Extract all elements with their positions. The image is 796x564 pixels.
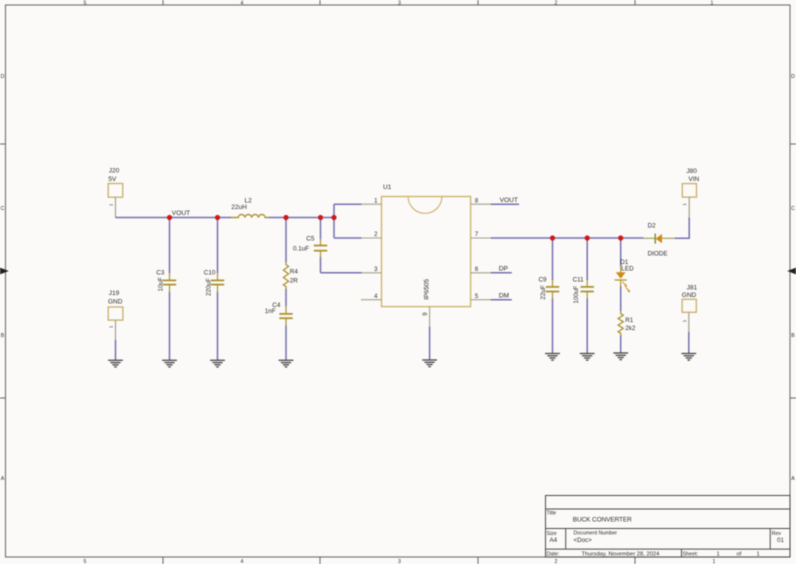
U1 pin 9 <box>423 307 430 327</box>
ground (U1 pin9) <box>422 360 437 367</box>
op-amp U1 IP6505 body <box>382 184 471 307</box>
svg-text:DP: DP <box>499 266 509 273</box>
svg-text:IP6505: IP6505 <box>424 279 431 300</box>
svg-text:J19: J19 <box>109 290 120 297</box>
ground (J19) <box>108 360 123 367</box>
net VOUT at pin 8 <box>491 197 519 204</box>
capacitor C11 <box>573 238 594 354</box>
svg-text:1: 1 <box>108 325 114 328</box>
connector J20 <box>108 168 123 218</box>
svg-text:2R: 2R <box>290 278 299 285</box>
net DP at pin 6 <box>491 266 512 273</box>
svg-text:D: D <box>1 74 5 80</box>
svg-text:2k2: 2k2 <box>625 325 636 332</box>
svg-text:LED: LED <box>621 266 634 273</box>
svg-text:22uH: 22uH <box>231 204 247 211</box>
svg-text:1: 1 <box>682 203 688 206</box>
wire U1 pin1/2 vertical <box>333 204 335 238</box>
svg-text:A4: A4 <box>550 537 558 544</box>
svg-text:2: 2 <box>555 1 558 7</box>
svg-text:5V: 5V <box>108 176 117 183</box>
wire J19 to ground <box>115 340 117 360</box>
junction at R4 <box>283 215 288 220</box>
svg-text:C: C <box>791 206 795 212</box>
capacitor C4 <box>265 302 293 360</box>
svg-text:J20: J20 <box>109 168 120 175</box>
svg-text:3: 3 <box>398 559 401 564</box>
svg-text:10uF: 10uF <box>158 277 165 292</box>
U1 pin 4 <box>361 294 382 300</box>
svg-text:GND: GND <box>108 299 123 306</box>
svg-text:100uF: 100uF <box>573 286 580 304</box>
wire D2 to J80 <box>675 217 690 238</box>
ground (C4) <box>279 360 294 367</box>
svg-text:R1: R1 <box>625 317 634 324</box>
svg-text:4: 4 <box>241 1 244 7</box>
svg-text:5: 5 <box>84 559 87 564</box>
wire U1 pin9 to ground <box>429 327 431 360</box>
svg-text:Sheet:: Sheet: <box>683 552 699 558</box>
svg-text:VOUT: VOUT <box>172 210 190 217</box>
svg-text:D2: D2 <box>648 222 657 229</box>
U1 pin 1 <box>362 198 382 204</box>
junction at C5 <box>318 215 323 220</box>
svg-text:1: 1 <box>711 1 714 7</box>
ground (J81) <box>681 354 696 361</box>
wire after L2 to pin1/2 vertical <box>269 217 334 219</box>
svg-text:B: B <box>791 333 795 339</box>
U1 pin 2 <box>362 232 382 238</box>
svg-text:1nF: 1nF <box>265 308 276 315</box>
svg-text:<Doc>: <Doc> <box>574 537 593 544</box>
U1 pin 5 <box>471 294 491 300</box>
svg-text:of: of <box>737 552 742 558</box>
svg-text:Title: Title <box>547 511 557 517</box>
capacitor C5 <box>293 218 327 273</box>
svg-text:4: 4 <box>241 559 244 564</box>
svg-text:0.1uF: 0.1uF <box>293 246 309 253</box>
svg-text:U1: U1 <box>383 184 392 191</box>
svg-text:Thursday, November 28, 2024: Thursday, November 28, 2024 <box>582 552 661 558</box>
U1 pin 7 <box>471 232 491 238</box>
capacitor C9 <box>539 238 560 354</box>
svg-text:1: 1 <box>713 559 716 564</box>
ground (C10) <box>210 360 225 367</box>
title block <box>546 496 791 558</box>
ground (C11) <box>580 354 595 361</box>
wire J81 to ground <box>688 332 690 354</box>
inductor L2 <box>231 197 269 217</box>
connector J81 <box>682 285 698 332</box>
capacitor C3 <box>156 218 176 361</box>
net DM at pin 5 <box>491 293 512 300</box>
U1 pin 3 <box>362 267 382 273</box>
junction at C3 <box>167 215 172 220</box>
svg-text:BUCK CONVERTER: BUCK CONVERTER <box>573 517 632 524</box>
svg-text:3: 3 <box>398 1 401 7</box>
svg-text:22uF: 22uF <box>540 285 547 300</box>
svg-text:1: 1 <box>757 552 760 558</box>
svg-text:1: 1 <box>682 319 688 322</box>
svg-text:1: 1 <box>109 203 115 206</box>
svg-text:DM: DM <box>499 293 509 300</box>
svg-text:A: A <box>1 476 5 482</box>
svg-text:DIODE: DIODE <box>648 251 668 258</box>
svg-text:D: D <box>791 74 795 80</box>
svg-text:C: C <box>1 206 5 212</box>
svg-text:J81: J81 <box>687 285 698 292</box>
resistor R1 <box>618 287 636 354</box>
wire pin 7 rail <box>491 237 644 239</box>
svg-text:R4: R4 <box>290 268 299 275</box>
svg-text:C5: C5 <box>306 236 315 243</box>
svg-text:VIN: VIN <box>688 176 699 183</box>
svg-text:220uF: 220uF <box>205 278 212 296</box>
resistor R4 <box>283 218 298 307</box>
junction at C10 <box>215 215 220 220</box>
svg-text:Document Number: Document Number <box>574 531 618 537</box>
LED D1 <box>615 238 635 292</box>
junction at C9 <box>550 235 555 240</box>
svg-text:C9: C9 <box>539 277 548 284</box>
wire C5 to U1 pin3 <box>321 272 362 274</box>
U1 pin 8 <box>471 198 491 204</box>
connector J80 <box>682 168 699 217</box>
svg-text:Date:: Date: <box>547 552 560 558</box>
ground (C9) <box>545 354 560 361</box>
capacitor C10 <box>204 218 224 361</box>
wire VOUT rail left <box>115 217 231 219</box>
diode D2 <box>644 222 675 257</box>
svg-text:01: 01 <box>777 537 784 544</box>
svg-text:C10: C10 <box>204 270 216 277</box>
ground (R1) <box>613 353 628 360</box>
connector J19 <box>108 290 123 340</box>
svg-text:1: 1 <box>717 552 720 558</box>
svg-text:2: 2 <box>555 559 558 564</box>
frame mid arrows <box>0 268 9 275</box>
svg-text:J80: J80 <box>686 168 697 175</box>
svg-text:VOUT: VOUT <box>500 197 518 204</box>
svg-text:5: 5 <box>84 1 87 7</box>
wire to U1 pin2 <box>334 237 362 239</box>
junction at C11 <box>585 235 590 240</box>
svg-text:B: B <box>1 333 5 339</box>
svg-text:C3: C3 <box>156 270 165 277</box>
svg-text:A: A <box>791 476 795 482</box>
junction at D1 <box>618 235 623 240</box>
wire to U1 pin1 <box>334 203 362 205</box>
ground (C3) <box>162 360 177 367</box>
junction at U1 pin1/2 feed <box>331 215 336 220</box>
svg-text:C11: C11 <box>573 277 585 284</box>
svg-text:GND: GND <box>682 292 697 299</box>
U1 pin 6 <box>471 267 491 273</box>
